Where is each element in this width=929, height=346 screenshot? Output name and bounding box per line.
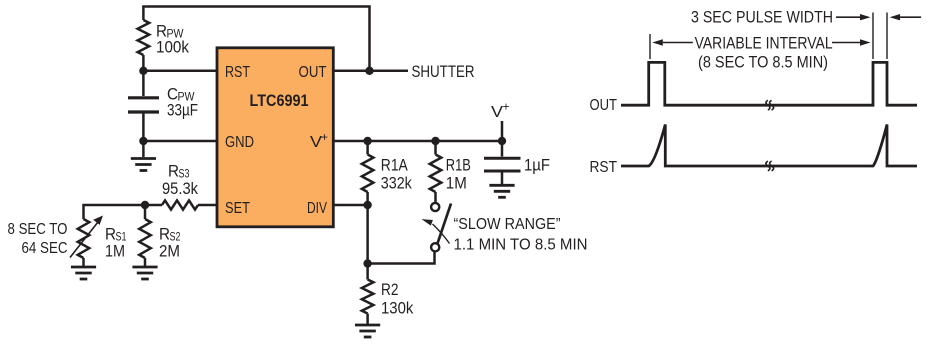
- wire: [142, 55, 145, 96]
- wire OUT pin to SHUTTER: [333, 70, 408, 73]
- svg-text:332k: 332k: [381, 175, 413, 193]
- wire: [142, 112, 145, 157]
- wire SET row: [84, 205, 163, 219]
- arrow right to pulse2 rising: [832, 42, 860, 44]
- wire: feedback loop top: [143, 7, 369, 71]
- label R1A value: [381, 156, 413, 192]
- V+ terminal: [501, 121, 504, 141]
- svg-text:VARIABLE INTERVAL: VARIABLE INTERVAL: [695, 35, 833, 53]
- svg-text:(8 SEC TO 8.5 MIN): (8 SEC TO 8.5 MIN): [698, 53, 828, 71]
- label CPW value: [167, 85, 198, 119]
- svg-text:SET: SET: [225, 200, 250, 217]
- junction R2 node: [363, 259, 371, 267]
- junction OUT node: [365, 67, 373, 75]
- svg-text:R1B: R1B: [446, 156, 471, 174]
- label RPW value: [156, 22, 190, 56]
- label R1B value: [446, 156, 471, 192]
- waveform RST break: [766, 161, 770, 171]
- svg-text:S1: S1: [116, 230, 127, 244]
- label RS2 value: [159, 226, 181, 261]
- waveform OUT break: [766, 100, 770, 110]
- label RS3 value: [162, 163, 199, 198]
- resistor RPW: [138, 20, 150, 55]
- junction rail-R1A: [363, 137, 371, 145]
- svg-text:130k: 130k: [381, 300, 414, 318]
- svg-text:1M: 1M: [105, 243, 125, 261]
- resistor R2: [362, 280, 374, 314]
- junction GND node: [139, 137, 147, 145]
- junction rail-cap: [498, 137, 506, 145]
- ground (1µF cap): [489, 185, 514, 197]
- wire DIV pin: [333, 204, 367, 207]
- ground (R2): [355, 325, 380, 337]
- junction SET node: [141, 201, 149, 209]
- op-amp/IC U1 LTC6991: [217, 48, 333, 227]
- extension line pulse2 rising: [872, 13, 874, 60]
- svg-text:2M: 2M: [159, 243, 180, 261]
- arrow of variable resistor RS1: [70, 222, 98, 258]
- svg-text:V: V: [491, 104, 503, 121]
- arrow left to pulse1 rising: [663, 42, 693, 44]
- switch SLOW RANGE: top terminal: [431, 203, 439, 211]
- waveform OUT trace: [621, 62, 917, 105]
- label SLOW RANGE: [454, 216, 588, 253]
- switch motion arrow: [433, 224, 450, 244]
- ground (RS2): [132, 267, 157, 279]
- junction RST node: [139, 67, 147, 75]
- arrow right to pulse2 rising: [836, 16, 860, 18]
- wire to switch: [368, 251, 435, 264]
- svg-text:64 SEC: 64 SEC: [22, 240, 68, 257]
- svg-text:DIV: DIV: [307, 200, 327, 217]
- svg-text:3 SEC PULSE WIDTH: 3 SEC PULSE WIDTH: [691, 9, 833, 27]
- svg-text:R: R: [168, 163, 179, 181]
- waveform RST trace: [621, 125, 917, 167]
- svg-text:33µF: 33µF: [167, 102, 198, 120]
- svg-text:SHUTTER: SHUTTER: [412, 62, 475, 81]
- svg-text:S3: S3: [179, 167, 190, 181]
- arrow left from right edge: [900, 16, 921, 18]
- svg-text:LTC6991: LTC6991: [250, 91, 309, 110]
- svg-text:1.1 MIN TO 8.5 MIN: 1.1 MIN TO 8.5 MIN: [454, 236, 588, 253]
- svg-text:RST: RST: [225, 64, 250, 81]
- extension line pulse2 falling: [886, 13, 888, 60]
- svg-text:R: R: [156, 22, 167, 40]
- svg-text:“SLOW RANGE”: “SLOW RANGE”: [454, 216, 561, 233]
- resistor RS1 (variable): [78, 219, 90, 258]
- svg-text:95.3k: 95.3k: [162, 180, 199, 198]
- svg-text:OUT: OUT: [299, 64, 327, 81]
- ground (RS1): [71, 267, 96, 279]
- wire V+ rail: [333, 140, 502, 143]
- wire DIV node down: [366, 205, 369, 264]
- svg-text:C: C: [167, 85, 178, 103]
- ground (CPW): [131, 159, 156, 171]
- capacitor 1µF: [501, 141, 504, 157]
- svg-text:S2: S2: [170, 230, 181, 244]
- svg-text:100k: 100k: [156, 39, 190, 57]
- switch blade: [437, 204, 451, 245]
- wire RS3 to SET pin: [198, 204, 217, 207]
- svg-text:RST: RST: [590, 159, 618, 176]
- wire GND pin: [143, 140, 217, 143]
- svg-text:R: R: [105, 226, 116, 244]
- resistor RS2: [144, 205, 147, 219]
- svg-text:1M: 1M: [446, 175, 467, 193]
- label RS1 value: [105, 226, 127, 261]
- capacitor CPW: [128, 98, 159, 112]
- resistor R1B: [434, 141, 437, 155]
- label R2 value: [381, 281, 414, 318]
- junction rail-R1B: [431, 137, 439, 145]
- switch SLOW RANGE: bottom terminal: [431, 243, 439, 251]
- svg-text:+: +: [321, 130, 328, 144]
- IC pin labels RST OUT GND V+ SET DIV and part number: [225, 64, 328, 217]
- extension line pulse1 rising: [649, 34, 651, 59]
- svg-text:GND: GND: [225, 134, 254, 151]
- svg-text:R: R: [159, 226, 170, 244]
- junction DIV node: [363, 201, 371, 209]
- svg-text:OUT: OUT: [590, 97, 618, 114]
- svg-text:+: +: [503, 100, 510, 114]
- svg-text:R2: R2: [381, 281, 399, 299]
- wire RST pin: [143, 70, 217, 73]
- svg-text:8 SEC TO: 8 SEC TO: [8, 221, 68, 238]
- resistor R1A: [366, 141, 369, 155]
- resistor RS3: [162, 200, 198, 209]
- svg-text:R1A: R1A: [381, 156, 408, 174]
- svg-text:1µF: 1µF: [524, 157, 550, 175]
- label 8 SEC TO 64 SEC: [8, 221, 68, 257]
